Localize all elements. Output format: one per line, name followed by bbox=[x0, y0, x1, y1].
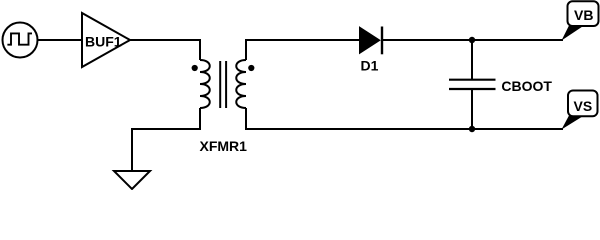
svg-text:CBOOT: CBOOT bbox=[501, 78, 552, 94]
wire source to buffer bbox=[38, 39, 83, 41]
wire primary bottom to ground bbox=[132, 108, 200, 171]
flag VB bbox=[562, 1, 599, 40]
transformer XFMR1 bbox=[192, 60, 255, 108]
svg-text:VS: VS bbox=[574, 98, 593, 114]
wire secondary top to diode anode bbox=[246, 40, 360, 60]
op-amp BUF1 bbox=[82, 13, 130, 67]
ground bbox=[114, 171, 150, 189]
secondary winding bbox=[236, 60, 246, 108]
wire diode to VB bbox=[383, 39, 563, 41]
diode D1 bbox=[360, 27, 382, 55]
capacitor CBOOT bbox=[449, 40, 496, 129]
square-wave pulse source bbox=[3, 23, 38, 58]
svg-text:BUF1: BUF1 bbox=[85, 33, 122, 49]
phase dot secondary bbox=[248, 65, 254, 71]
flag VS bbox=[562, 91, 598, 130]
svg-text:D1: D1 bbox=[361, 57, 379, 73]
phase dot primary bbox=[192, 65, 198, 71]
primary winding bbox=[200, 60, 210, 108]
svg-text:XFMR1: XFMR1 bbox=[200, 138, 248, 154]
svg-text:VB: VB bbox=[574, 7, 593, 23]
core bbox=[219, 61, 221, 108]
junction bottom of CBOOT bbox=[469, 126, 475, 132]
junction top of CBOOT bbox=[469, 37, 475, 43]
wire buffer output to transformer primary top bbox=[131, 40, 201, 60]
wire secondary bottom to VS flag bbox=[246, 108, 563, 129]
